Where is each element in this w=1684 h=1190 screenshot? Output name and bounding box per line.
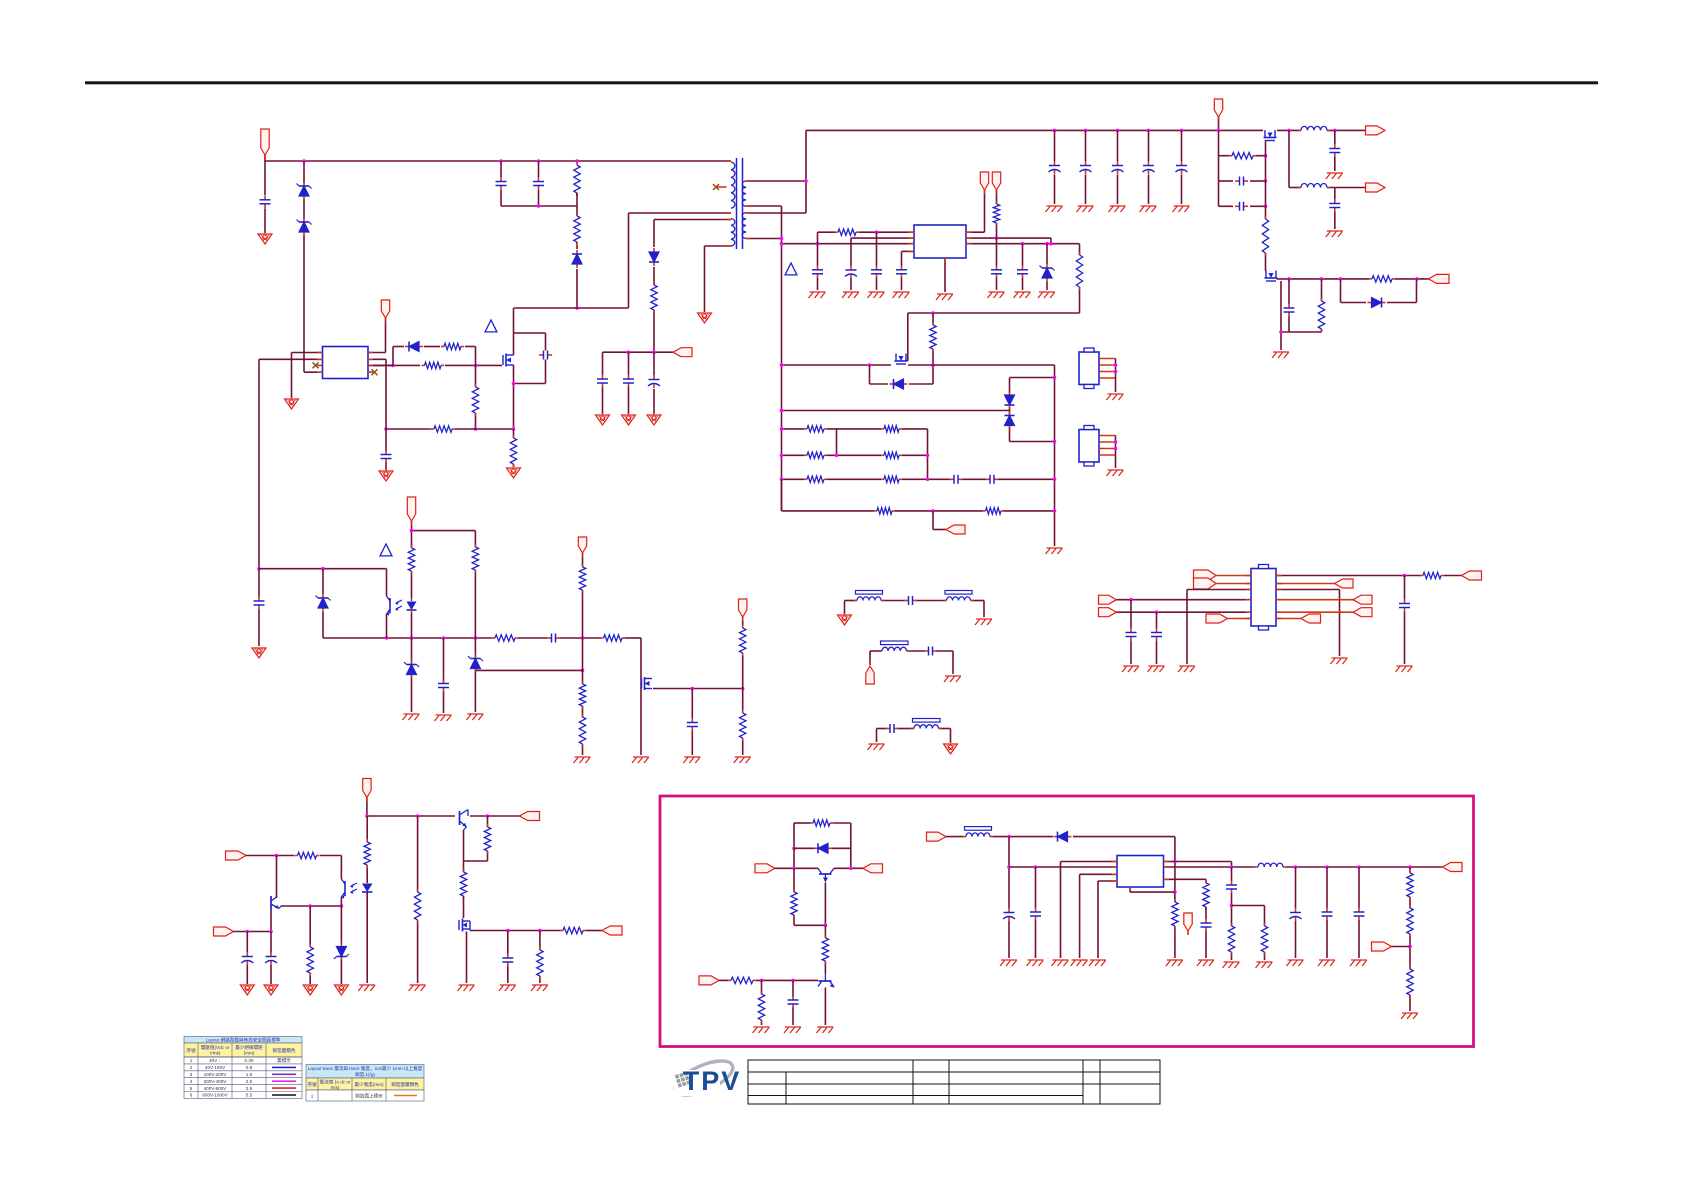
- connector P12: [578, 537, 586, 553]
- ground (snub rail): [1046, 548, 1063, 554]
- ground (C42): [1197, 960, 1214, 966]
- junction: [246, 930, 250, 934]
- wire C36 branch: [246, 932, 248, 985]
- wire rail y867 right: [1164, 866, 1443, 868]
- op-amp U3 (interface IC): [1251, 565, 1276, 631]
- capacitor C47: [438, 679, 449, 692]
- polarity triangle (transformer): [785, 263, 797, 275]
- ground (C38): [499, 985, 516, 991]
- svg-text:1: 1: [190, 1058, 193, 1063]
- junction: [1049, 242, 1053, 246]
- connector A5: [1206, 614, 1228, 623]
- resistor R25: [1420, 572, 1444, 578]
- ground (C39): [784, 1027, 801, 1033]
- resistor R10: [993, 201, 999, 226]
- connector P7 (output 1): [1366, 126, 1386, 135]
- zener Z5: [404, 661, 419, 679]
- ground (C10): [868, 292, 885, 298]
- resistor R1 (clamp): [574, 162, 580, 196]
- junction: [780, 478, 784, 482]
- resistor R30: [579, 564, 585, 593]
- resistor R33: [740, 625, 746, 656]
- wire zener row: [475, 669, 582, 671]
- polarity triangle (opto): [380, 544, 392, 556]
- junction: [1264, 179, 1268, 183]
- capacitor C41: [1030, 908, 1041, 921]
- junction: [1114, 447, 1118, 451]
- connector P2 (U1 VCC pin): [381, 300, 389, 318]
- wire A13 row: [234, 931, 272, 933]
- svg-text:銅箔:1(/g): 銅箔:1(/g): [355, 1071, 375, 1078]
- wire R29 branch: [474, 531, 476, 712]
- wire Q5 source to ground: [1281, 281, 1322, 350]
- wire U1 gate out: [368, 364, 393, 366]
- wire TVS loop: [1010, 365, 1055, 546]
- junction: [537, 159, 541, 163]
- inductor FB3 (bead): [879, 641, 910, 651]
- inductor FB2 (bead): [944, 591, 974, 601]
- ground (LED2): [358, 985, 375, 991]
- op-amp U1 (PWM controller): [323, 347, 369, 379]
- wire D6 loop: [870, 365, 934, 384]
- ground (bulk C13): [1140, 206, 1157, 212]
- wire R12 branch: [932, 313, 934, 384]
- wire sense cap leg: [385, 429, 387, 470]
- wire Q7 emitter loop: [464, 816, 488, 872]
- diode D10: [1054, 832, 1072, 842]
- resistor R27: [601, 635, 626, 641]
- transformer tap X mark: [713, 184, 719, 190]
- wire Z2 branch: [322, 569, 324, 638]
- junction: [1034, 865, 1038, 869]
- capacitor C30: [904, 596, 917, 605]
- wire C44 branch: [1295, 867, 1297, 958]
- wire C35 branch: [691, 689, 693, 756]
- capacitor C27: [1126, 628, 1137, 641]
- wire U2 bottom pin: [944, 258, 946, 292]
- junction: [506, 929, 510, 933]
- resistor R21: [1229, 153, 1256, 159]
- ground (filter1 right): [975, 619, 992, 625]
- junction: [1053, 509, 1057, 513]
- ground (R47): [753, 1027, 770, 1033]
- capacitor C44: [1290, 908, 1302, 921]
- connector A15: [755, 864, 775, 873]
- wire fb rail y638: [323, 637, 641, 639]
- resistor R32: [579, 714, 585, 747]
- resistor R54: [1407, 966, 1413, 998]
- transformer T1 secondary lower winding: [742, 213, 746, 239]
- wire C24 legs: [1334, 130, 1336, 171]
- svg-text:5: 5: [190, 1086, 193, 1091]
- junction: [926, 478, 930, 482]
- wire LED low side: [411, 613, 413, 712]
- capacitor C36: [241, 952, 253, 965]
- wire bottom row y511: [782, 479, 1055, 511]
- wire Q9 nets: [464, 896, 603, 983]
- connector P3 (VCC test): [673, 348, 692, 357]
- wire sense tap: [933, 511, 946, 530]
- ground (C12): [893, 292, 910, 298]
- capacitor C14 (output bulk): [1176, 161, 1188, 174]
- wire R37 branch: [309, 906, 311, 984]
- junction: [1320, 277, 1324, 281]
- connector J3 (header): [1079, 348, 1099, 389]
- wire bulk cap C10 legs: [1054, 130, 1056, 204]
- wire RC row3 y479: [782, 478, 1055, 480]
- wire U1 pin1 to ground: [292, 353, 323, 399]
- junction: [1173, 860, 1177, 864]
- wire Q4 gate chain: [1265, 140, 1267, 271]
- transistor Q6: [642, 677, 653, 690]
- capacitor C43: [1226, 881, 1237, 894]
- resistor R26: [492, 635, 518, 641]
- wire U6 R1: [1164, 862, 1232, 868]
- svg-text:1.5: 1.5: [246, 1072, 253, 1077]
- connector A16: [863, 864, 883, 873]
- connector A20: [1372, 942, 1392, 951]
- wire U6 L3: [1080, 874, 1117, 958]
- ground (C8): [647, 415, 661, 425]
- wire drain snubber loop: [514, 333, 546, 384]
- wire C43 chain: [1231, 867, 1233, 960]
- resistor R4 (gate speedup): [441, 343, 464, 349]
- wire tap stub: [716, 186, 727, 188]
- wire U3 R5: [1276, 611, 1353, 613]
- wire clamp return y308: [514, 213, 629, 355]
- diode D6: [890, 379, 908, 389]
- wire VCC rail y352: [603, 352, 674, 414]
- wire bulk cap C13 legs: [1148, 130, 1150, 204]
- junction: [1264, 205, 1268, 209]
- zener D2: [297, 218, 312, 236]
- wire aux rail y244: [782, 243, 915, 245]
- wire U6 R3: [1164, 879, 1207, 883]
- wire C46 branch: [1358, 867, 1360, 958]
- wire Q8 base down: [270, 910, 272, 932]
- resistor R31: [579, 681, 585, 709]
- capacitor C45: [1322, 908, 1333, 921]
- transistor Q8 (NPN): [271, 896, 281, 910]
- wire U2 pin1 row: [818, 232, 915, 290]
- connector A18: [927, 832, 947, 841]
- ground (J3): [1107, 394, 1124, 400]
- no-connect X mark U1 right pin4: [372, 369, 378, 375]
- junction: [474, 364, 478, 368]
- svg-text:4: 4: [190, 1079, 193, 1084]
- junction: [1230, 865, 1234, 869]
- svg-text:400V-600V: 400V-600V: [204, 1086, 228, 1091]
- ground (C11): [842, 292, 859, 298]
- junction: [849, 867, 853, 871]
- ground (Z5): [403, 714, 420, 720]
- wire filter3: [877, 729, 951, 744]
- diode D3 (clamp): [572, 250, 582, 268]
- junction: [575, 306, 579, 310]
- wire R11 branch: [1079, 244, 1081, 313]
- resistor R5 (gate pulldown): [472, 384, 478, 416]
- ground (R34): [734, 757, 751, 763]
- ground (Z4): [334, 985, 348, 995]
- wire U3 L5 row: [1117, 611, 1252, 613]
- wire base rail y980: [719, 979, 818, 981]
- junction: [995, 236, 999, 240]
- ground (C44): [1287, 960, 1304, 966]
- junction: [780, 242, 784, 246]
- junction: [385, 636, 389, 640]
- capacitor C24: [1329, 144, 1340, 157]
- svg-text:100V-200V: 100V-200V: [204, 1072, 228, 1077]
- junction: [275, 854, 279, 858]
- svg-text:(mm): (mm): [244, 1051, 255, 1056]
- wire source resistor legs: [513, 429, 515, 467]
- svg-text:0.30: 0.30: [245, 1058, 254, 1063]
- inductor FB4 (bead): [911, 719, 942, 729]
- wire J4 pins: [1099, 436, 1116, 456]
- wire filter1: [845, 601, 985, 618]
- capacitor C46: [1354, 908, 1365, 921]
- ground (C37): [264, 985, 278, 995]
- wire U1 pin2 feedback line: [259, 359, 323, 568]
- ground (C14): [1014, 292, 1031, 298]
- capacitor C38: [502, 954, 513, 967]
- wire U3 R2: [1276, 583, 1335, 585]
- ground (source): [507, 468, 521, 478]
- wire feedback row y313: [908, 313, 1080, 361]
- wire R50 branch: [1232, 906, 1265, 961]
- resistor R11: [1076, 252, 1082, 290]
- capacitor C23: [1235, 202, 1248, 211]
- resistor R49: [1203, 880, 1209, 910]
- wire C28 branch: [1156, 612, 1158, 664]
- capacitor C32: [886, 724, 899, 733]
- resistor R9: [835, 229, 859, 235]
- wire U2 pin4 row: [902, 251, 915, 290]
- wire gate row y365: [782, 364, 1055, 366]
- wire secondary return: [746, 206, 782, 511]
- ground (C24): [1326, 173, 1343, 179]
- capacitor C16: [986, 475, 999, 484]
- connector A2: [1194, 578, 1217, 589]
- wire TVS rail y410: [782, 410, 1010, 412]
- wire C45 branch: [1326, 867, 1328, 958]
- wire R47 branch: [761, 980, 763, 1025]
- resistor R17: [804, 476, 827, 482]
- svg-text:序號: 序號: [307, 1081, 317, 1088]
- wire A20 tap: [1392, 946, 1411, 948]
- ground (R32): [574, 757, 591, 763]
- wire clamp chain: [576, 193, 578, 308]
- resistor R34: [740, 710, 746, 741]
- resistor R40: [460, 869, 466, 899]
- wire U3 L4 row: [1117, 599, 1252, 601]
- junction: [1045, 242, 1049, 246]
- ground (bulk C14): [1173, 206, 1190, 212]
- ground (C40): [1000, 960, 1017, 966]
- wire U3 L1/L2: [1216, 576, 1251, 584]
- wire Q6 drain leg: [640, 638, 642, 755]
- junction: [1053, 478, 1057, 482]
- capacitor C13: [991, 265, 1002, 278]
- resistor R50: [1261, 923, 1267, 955]
- resistor R41: [560, 927, 586, 933]
- wire Q8 collector: [276, 856, 278, 899]
- zener Z4: [334, 943, 349, 961]
- connector P14: [363, 779, 371, 798]
- wire P1 stem + AC bus: [265, 155, 731, 161]
- ground (Z3): [466, 714, 483, 720]
- wire U2 right pin1: [966, 190, 985, 232]
- junction: [931, 364, 935, 368]
- junction: [1116, 129, 1120, 133]
- junction: [780, 454, 784, 458]
- wire current sense row: [386, 428, 514, 430]
- wire C26 branch: [1288, 279, 1290, 332]
- svg-text:3: 3: [190, 1072, 193, 1077]
- svg-text:6: 6: [190, 1093, 193, 1098]
- connector P8 (output 2): [1366, 183, 1386, 192]
- resistor R36: [295, 852, 320, 858]
- ground (R50): [1256, 962, 1273, 968]
- wire P13 chain: [742, 617, 744, 755]
- junction: [1007, 835, 1011, 839]
- ground (U3 L3): [1178, 666, 1195, 672]
- junction: [741, 687, 745, 691]
- junction: [1287, 129, 1291, 133]
- resistor R7 (source sense): [510, 435, 516, 467]
- transistor Q1 (main switch MOSFET): [503, 354, 514, 367]
- junction: [512, 427, 516, 431]
- connector A11: [520, 812, 540, 821]
- junction: [816, 242, 820, 246]
- ground (Z1): [1038, 292, 1055, 298]
- transistor Q11 (NPN): [818, 973, 834, 988]
- resistor R37: [307, 944, 313, 976]
- ground (C33): [252, 648, 266, 658]
- wire sync fet gate net: [1219, 130, 1266, 206]
- connector A3: [1099, 595, 1117, 604]
- no-connect X mark U1 pin3: [313, 362, 319, 368]
- capacitor C28: [1151, 628, 1162, 641]
- junction: [512, 382, 516, 386]
- transistor Q4 (output switch): [1264, 130, 1277, 141]
- wire P12 chain: [582, 553, 584, 755]
- connector P4: [980, 172, 988, 190]
- ground (bulk C10): [1046, 206, 1063, 212]
- wire U2 pin2 row: [851, 238, 914, 290]
- resistor R46: [728, 977, 756, 983]
- wire C1 legs: [264, 161, 266, 233]
- junction: [1114, 440, 1118, 444]
- wire bulk cap C11 legs: [1085, 130, 1087, 204]
- junction: [1230, 904, 1234, 908]
- wire R24 branch: [1321, 279, 1323, 332]
- capacitor C34: [547, 634, 560, 643]
- transistor Q10 (NPN pass): [818, 868, 834, 882]
- wire U5 emitter: [340, 897, 342, 906]
- ground (R42): [531, 985, 548, 991]
- wire bulk cap C14 legs: [1181, 130, 1183, 204]
- ground (R48): [1166, 960, 1183, 966]
- junction: [1114, 370, 1118, 374]
- wire aux winding branch: [654, 220, 731, 353]
- wire U3 R6: [1276, 618, 1301, 620]
- junction: [780, 409, 784, 413]
- wire J3 pins: [1099, 359, 1116, 379]
- svg-text:無標示: 無標示: [277, 1057, 291, 1064]
- inductor FB1 (bead): [854, 591, 884, 601]
- ground (Q5): [1272, 352, 1289, 358]
- capacitor C13 (output bulk): [1143, 161, 1155, 174]
- junction: [1403, 574, 1407, 578]
- resistor R22: [1262, 216, 1268, 256]
- junction: [792, 847, 796, 851]
- junction: [1053, 129, 1057, 133]
- wire diode D8 loop: [1341, 279, 1417, 303]
- resistor R2 (clamp): [574, 213, 580, 245]
- wire P11 net: [412, 521, 476, 598]
- svg-text:Ims): Ims): [331, 1085, 340, 1090]
- capacitor C12: [896, 265, 907, 278]
- ground (C45): [1318, 960, 1335, 966]
- junction: [1294, 865, 1298, 869]
- wire R42 branch: [539, 931, 541, 984]
- resistor R23: [1369, 276, 1395, 282]
- junction: [1264, 154, 1268, 158]
- capacitor C10: [871, 265, 882, 278]
- junction: [302, 159, 306, 163]
- resistor R6 (sense filter): [431, 426, 455, 432]
- capacitor C26: [1284, 304, 1295, 317]
- svg-text:40V-100V: 40V-100V: [205, 1065, 226, 1070]
- title block table: [748, 1060, 1160, 1104]
- svg-text:銅箔面積色: 銅箔面積色: [273, 1047, 296, 1054]
- resistor R12: [930, 322, 936, 352]
- resistor R45: [822, 935, 828, 964]
- junction: [1053, 376, 1057, 380]
- junction: [791, 979, 795, 983]
- ground (C25): [1326, 231, 1343, 237]
- connector A13: [214, 927, 234, 936]
- junction: [1021, 242, 1025, 246]
- ground (filter3 right): [944, 744, 958, 754]
- capacitor C40: [1003, 908, 1015, 921]
- wire A12 row: [246, 856, 341, 880]
- junction: [1408, 945, 1412, 949]
- junction: [1084, 129, 1088, 133]
- capacitor C5 (sense filter): [381, 450, 392, 463]
- wire R39 branch: [417, 816, 419, 983]
- wire upper clamp rail y213: [629, 212, 732, 214]
- capacitor C8 (VCC bulk): [648, 375, 660, 388]
- junction: [1333, 129, 1337, 133]
- capacitor C39: [788, 996, 799, 1009]
- wire RC row2 y455: [782, 454, 928, 456]
- diode D5 (aux rect): [649, 248, 659, 266]
- connector J4 (header): [1079, 426, 1099, 467]
- resistor R51: [1228, 923, 1234, 955]
- transistor Q5 (linear reg): [1265, 271, 1278, 282]
- capacitor C33: [254, 597, 265, 610]
- capacitor C1: [260, 195, 271, 208]
- junction: [486, 814, 490, 818]
- connector P13: [739, 599, 747, 617]
- svg-text:3.5: 3.5: [246, 1086, 253, 1091]
- zener Z2: [316, 594, 331, 612]
- wire base row: [775, 867, 863, 869]
- svg-text:5.5: 5.5: [246, 1093, 253, 1098]
- wire input row: [946, 836, 1175, 838]
